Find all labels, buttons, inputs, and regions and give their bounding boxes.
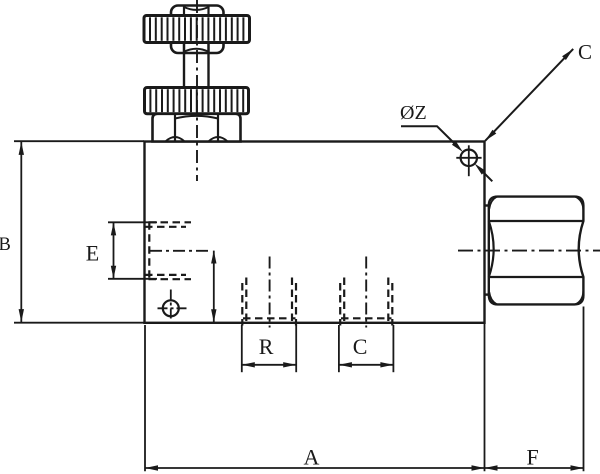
dimension A/F extension lines (144, 325, 146, 471)
port height dimension line (213, 251, 215, 323)
hex outlet fitting (right) (485, 197, 584, 305)
dimension C line (339, 364, 394, 366)
dimension F arrows (485, 465, 498, 470)
port C centerline (365, 257, 367, 328)
vertical centerline through knob (196, 0, 198, 181)
gauge port circle ØZ (456, 145, 481, 176)
svg-text:E: E (86, 241, 99, 266)
svg-text:F: F (527, 444, 539, 469)
hex nut on body (153, 114, 241, 142)
svg-text:R: R (259, 334, 274, 359)
ØZ leader arrowhead (452, 141, 463, 152)
port R centerline (269, 257, 271, 328)
dimension R line (242, 364, 296, 366)
dimension R extension lines (241, 325, 243, 372)
dimension C extension lines (338, 325, 340, 372)
upper knurled knob disk (144, 16, 250, 43)
lower knurled locknut disk (145, 88, 249, 114)
svg-text:ØZ: ØZ (400, 102, 427, 124)
ØZ lower diagonal arrow (482, 171, 493, 182)
svg-text:B: B (0, 235, 11, 255)
acorn nut (top hex) (171, 6, 224, 54)
dimension E extension lines (108, 221, 157, 223)
drain screw circle (158, 290, 188, 322)
port E centerline (150, 250, 212, 252)
dimension A line (145, 467, 584, 469)
ØZ leader line (401, 126, 457, 145)
dimension B line (20, 142, 22, 322)
svg-text:A: A (304, 444, 320, 469)
dimension B extension lines (14, 140, 144, 142)
hidden port E (left face) (145, 222, 191, 279)
svg-text:C: C (578, 40, 592, 64)
threaded stem (184, 43, 209, 89)
horizontal centerline through fitting (458, 250, 600, 252)
hidden port C (bottom) (340, 278, 392, 326)
dimension E line (113, 222, 115, 278)
chamfer C leader (485, 49, 573, 141)
valve body (145, 142, 485, 323)
svg-text:C: C (353, 334, 368, 359)
hidden port R (bottom) (242, 278, 296, 326)
